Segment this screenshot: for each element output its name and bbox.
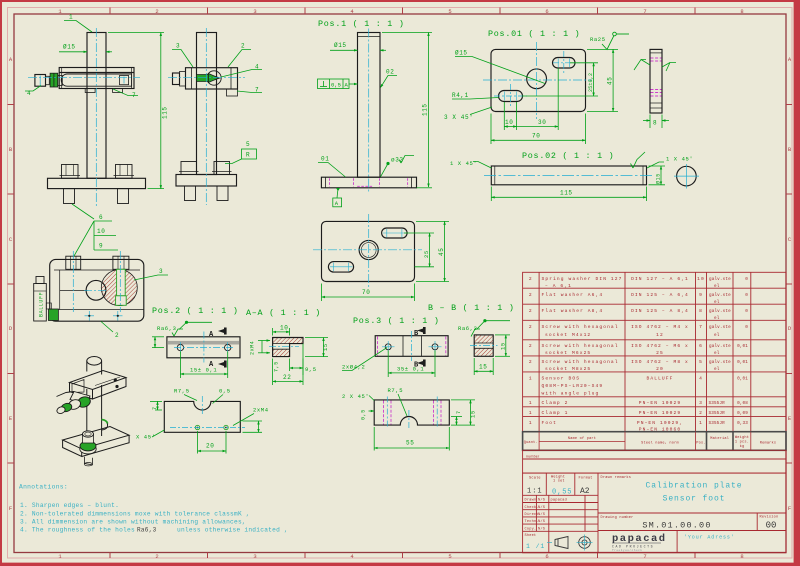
iso sensor chain: [56, 392, 92, 415]
svg-text:Screw with hexagonal: Screw with hexagonal: [542, 343, 619, 349]
svg-text:Sensor BOS: Sensor BOS: [542, 376, 581, 382]
svg-text:Name of part: Name of part: [568, 436, 596, 441]
clamp nut bottom right: [227, 89, 238, 96]
pos3 side dim 15 right: [495, 335, 510, 356]
svg-text:F: F: [9, 505, 12, 512]
svg-text:2: 2: [241, 43, 245, 50]
svg-text:Ra6,3: Ra6,3: [157, 325, 177, 332]
svg-text:2: 2: [529, 308, 533, 314]
BB dim 45: [416, 221, 449, 281]
svg-text:DIN 127 – A 6,1: DIN 127 – A 6,1: [631, 276, 689, 282]
svg-text:BALLUFF: BALLUFF: [647, 376, 674, 382]
svg-text:Ø15: Ø15: [455, 50, 468, 57]
sensor green parts side: [197, 74, 220, 83]
svg-text:Calibration plate: Calibration plate: [646, 482, 743, 491]
svg-text:2: 2: [529, 276, 533, 282]
ruler zone ticks bottom: [110, 553, 695, 559]
svg-text:S355JR: S355JR: [709, 401, 726, 406]
projection symbols: [555, 537, 590, 549]
svg-text:15: 15: [470, 410, 477, 418]
svg-text:2: 2: [529, 324, 533, 330]
svg-text:8: 8: [653, 120, 657, 127]
svg-text:Drawing number: Drawing number: [601, 515, 634, 520]
pos2top dim 7,5 left: [152, 337, 164, 348]
front view centerlines: [28, 28, 140, 207]
svg-text:galv.ste: galv.ste: [709, 309, 731, 314]
studs below: [185, 186, 196, 201]
svg-text:galv.ste: galv.ste: [709, 325, 731, 330]
svg-text:1: 1: [699, 420, 703, 426]
svg-text:PN–EN 10029: PN–EN 10029: [639, 410, 681, 416]
svg-text:0: 0: [745, 277, 748, 282]
svg-text:8: 8: [740, 553, 743, 560]
svg-text:Ra6,3: Ra6,3: [137, 526, 157, 533]
svg-text:115: 115: [560, 190, 573, 197]
svg-text:8: 8: [699, 308, 703, 314]
pos2top dim 15±0,1: [180, 352, 227, 379]
pos02 dim 115: [491, 187, 646, 202]
svg-text:socket M4x12: socket M4x12: [545, 332, 591, 338]
dots on top face: [114, 379, 116, 381]
svg-text:35± 0,1: 35± 0,1: [397, 366, 424, 373]
base feet: [84, 457, 92, 465]
svg-text:ISO 4762 – M8 x: ISO 4762 – M8 x: [631, 359, 689, 365]
svg-text:Steel name, norm: Steel name, norm: [641, 441, 679, 446]
check mark pos02: [633, 152, 645, 168]
slot top-right BB: [382, 228, 408, 238]
pos01 centerlines: [483, 42, 592, 119]
svg-text:Sheet: Sheet: [525, 533, 537, 538]
sensor green parts front: [50, 73, 58, 87]
svg-text:Copy.: Copy.: [525, 527, 537, 531]
svg-text:55: 55: [406, 440, 414, 447]
dim 20: [198, 431, 227, 454]
svg-text:10: 10: [505, 119, 513, 126]
gray slot band: [168, 341, 239, 345]
svg-text:Annotations:: Annotations:: [19, 484, 68, 491]
sensor body left: [35, 75, 46, 87]
svg-text:10: 10: [697, 276, 705, 282]
svg-text:Screw with hexagonal: Screw with hexagonal: [542, 324, 619, 330]
svg-text:0: 0: [745, 325, 748, 330]
svg-text:20: 20: [656, 366, 664, 372]
plate outline: [322, 221, 415, 281]
svg-text:PN–EN 10029: PN–EN 10029: [639, 400, 681, 406]
column: [358, 33, 381, 178]
flange hidden holes magenta: [330, 178, 408, 187]
svg-text:– A 6,1: – A 6,1: [545, 283, 572, 289]
svg-text:20: 20: [206, 443, 214, 450]
base flange: [321, 177, 416, 188]
svg-text:Flat washer A6,4: Flat washer A6,4: [542, 292, 604, 298]
svg-text:2 X 45': 2 X 45': [342, 393, 369, 400]
svg-text:BALLUFF: BALLUFF: [39, 292, 45, 317]
datum A flag: [336, 188, 340, 191]
column cylinder: [87, 357, 102, 366]
svg-text:15: 15: [322, 343, 329, 351]
svg-text:A2: A2: [580, 487, 590, 496]
clamp slot detail: [72, 380, 84, 393]
pos1 dim 115: [382, 33, 432, 188]
svg-text:4: 4: [699, 376, 703, 382]
pos01 dim 25±0,2: [522, 63, 598, 96]
svg-text:Ø15: Ø15: [334, 42, 347, 49]
svg-text:unless otherwise indicated ,: unless otherwise indicated ,: [177, 526, 288, 533]
svg-text:70: 70: [532, 133, 540, 140]
svg-text:15: 15: [500, 342, 507, 350]
svg-text:Foot: Foot: [542, 420, 557, 426]
svg-text:Pos.2 ( 1 : 1 ): Pos.2 ( 1 : 1 ): [152, 306, 239, 316]
dim Ø15 front: [59, 51, 112, 53]
pos2top centerlines: [174, 332, 235, 363]
svg-text:115: 115: [422, 103, 429, 116]
dim 115 front: [108, 33, 164, 189]
pos1 centerline: [368, 29, 370, 194]
svg-text:N/S: N/S: [538, 519, 545, 524]
pos02 end circle: [677, 166, 697, 186]
pos01 side dim 8: [643, 115, 669, 129]
clamp block top face: [70, 371, 127, 390]
small holes: [195, 425, 199, 429]
svg-text:1: 1: [529, 420, 533, 426]
svg-text:free4you/check: free4you/check: [612, 548, 643, 552]
base plate front: [48, 178, 146, 188]
svg-text:7,5: 7,5: [274, 361, 280, 372]
svg-text:15± 0,1: 15± 0,1: [190, 367, 217, 374]
center hole: [527, 69, 547, 89]
svg-text:1: 1: [529, 376, 533, 382]
svg-text:25: 25: [656, 350, 664, 356]
svg-text:3: 3: [253, 8, 256, 15]
svg-text:Pos.02 ( 1 : 1 ): Pos.02 ( 1 : 1 ): [522, 151, 614, 161]
dims right: [451, 400, 475, 425]
svg-text:Ø15: Ø15: [63, 44, 76, 51]
side view centerlines: [168, 28, 245, 205]
svg-text:Drawn: Drawn: [525, 498, 537, 503]
hatched boss: [101, 270, 137, 306]
svg-text:1 /1: 1 /1: [526, 543, 545, 550]
svg-text:7: 7: [643, 553, 646, 560]
svg-text:0: 0: [745, 293, 748, 298]
svg-text:8: 8: [740, 8, 743, 15]
svg-text:1 pcs.: 1 pcs.: [735, 441, 749, 445]
svg-text:1 X 45': 1 X 45': [666, 156, 693, 163]
svg-text:0,5: 0,5: [331, 82, 341, 89]
svg-text:Format: Format: [579, 476, 593, 481]
svg-text:Pos.: Pos.: [696, 442, 705, 446]
svg-text:SM.01.00.00: SM.01.00.00: [642, 521, 711, 531]
left bolt head: [66, 256, 81, 269]
svg-text:'Your Adress': 'Your Adress': [684, 535, 735, 541]
svg-text:6: 6: [699, 343, 703, 349]
svg-text:DIN 125 – A 8,4: DIN 125 – A 8,4: [631, 308, 689, 314]
svg-text:5: 5: [699, 359, 703, 365]
svg-text:Ø15: Ø15: [655, 173, 662, 184]
svg-text:2: 2: [155, 8, 158, 15]
studs below base: [64, 189, 75, 204]
svg-text:galv.ste: galv.ste: [709, 293, 731, 298]
svg-text:el: el: [714, 284, 720, 289]
svg-text:Scale: Scale: [529, 476, 541, 481]
slot top-right: [553, 58, 576, 69]
dim 55: [374, 427, 449, 451]
svg-text:0,01: 0,01: [737, 360, 748, 365]
svg-text:2. Non-tolerated dimmensions m: 2. Non-tolerated dimmensions moxe with t…: [20, 510, 250, 517]
svg-text:30: 30: [538, 119, 546, 126]
svg-text:1: 1: [529, 400, 533, 406]
svg-text:el: el: [714, 300, 720, 305]
pos3 side dim 15 bottom: [474, 358, 493, 375]
base plate sides: [63, 440, 82, 457]
svg-text:6: 6: [99, 214, 103, 221]
svg-text:115: 115: [162, 106, 169, 119]
ruler zone ticks left/right: [8, 105, 793, 464]
svg-text:R4,1: R4,1: [452, 92, 469, 99]
svg-text:F: F: [788, 505, 791, 512]
bolt left: [62, 165, 79, 179]
svg-text:1 set: 1 set: [553, 480, 565, 484]
clamp body front: [59, 68, 134, 89]
svg-text:4. The roughness of the holes: 4. The roughness of the holes: [20, 526, 135, 533]
svg-text:R: R: [246, 152, 250, 159]
svg-text:7: 7: [152, 406, 158, 410]
roughness check pos1: [401, 156, 414, 164]
svg-text:Clamp 2: Clamp 2: [542, 400, 569, 406]
svg-text:N/S: N/S: [538, 505, 545, 510]
svg-text:PN–EN 10060: PN–EN 10060: [639, 427, 681, 433]
pos02 dim Ø15 right: [649, 166, 666, 185]
BB centerlines: [313, 214, 422, 289]
svg-text:0,01: 0,01: [737, 377, 748, 382]
svg-text:2: 2: [115, 332, 119, 339]
base plate top face: [63, 427, 130, 449]
svg-text:7: 7: [456, 410, 462, 414]
pos1 dim Ø15: [330, 49, 386, 51]
svg-text:6: 6: [545, 553, 548, 560]
svg-text:3: 3: [699, 400, 703, 406]
section B-B marks: [414, 327, 426, 370]
svg-text:S355JR: S355JR: [709, 411, 726, 416]
row lines: [523, 287, 786, 289]
svg-text:3 X 45': 3 X 45': [444, 114, 473, 121]
svg-text:A: A: [335, 200, 339, 207]
svg-text:socket M8x25: socket M8x25: [545, 366, 591, 372]
svg-text:Remarks: Remarks: [760, 441, 777, 446]
slot bottom-left: [499, 91, 523, 102]
svg-text:socket M6x25: socket M6x25: [545, 350, 591, 356]
svg-text:Material: Material: [710, 436, 729, 441]
number row: [523, 450, 786, 473]
svg-text:el: el: [714, 351, 720, 356]
svg-text:Revision: Revision: [760, 515, 779, 520]
svg-text:Sensor foot: Sensor foot: [663, 495, 726, 504]
svg-text:kg: kg: [740, 444, 745, 449]
svg-text:R7,5: R7,5: [388, 387, 404, 394]
svg-text:galv.ste: galv.ste: [709, 360, 731, 365]
side plate roughness checks: [634, 60, 646, 71]
svg-text:with angle plug: with angle plug: [542, 391, 600, 397]
svg-text:0,33: 0,33: [737, 421, 748, 426]
svg-text:6: 6: [545, 8, 548, 15]
svg-text:9: 9: [699, 292, 703, 298]
leader 6 below front view: [72, 204, 94, 219]
svg-text:9: 9: [99, 243, 103, 250]
svg-text:2: 2: [699, 410, 703, 416]
pos01 dim 70: [491, 114, 586, 145]
shaft centerline: [484, 174, 654, 176]
dim 4 right: [243, 421, 263, 432]
dim 7 left: [150, 401, 162, 410]
right bolt head: [113, 256, 129, 269]
svg-text:Ra25: Ra25: [590, 36, 606, 43]
center hole BB: [359, 240, 378, 259]
svg-text:45: 45: [607, 77, 614, 85]
svg-text:2: 2: [529, 343, 533, 349]
svg-text:Flat washer A8,4: Flat washer A8,4: [542, 308, 604, 314]
svg-text:el: el: [714, 333, 720, 338]
svg-text:2xM4: 2xM4: [253, 407, 269, 414]
BB dim 70: [322, 284, 415, 302]
svg-text:5: 5: [246, 141, 250, 148]
svg-text:45: 45: [438, 248, 445, 256]
assembly centerlines: [73, 251, 120, 312]
svg-text:0,09: 0,09: [737, 411, 748, 416]
column side: [197, 33, 217, 175]
svg-text:Drawn remarks: Drawn remarks: [601, 475, 632, 480]
svg-text:CAD PROJECTS: CAD PROJECTS: [612, 545, 654, 549]
svg-text:0,55: 0,55: [552, 489, 572, 497]
svg-text:Pos.3 ( 1 : 1 ): Pos.3 ( 1 : 1 ): [353, 316, 440, 326]
svg-text:galv.ste: galv.ste: [709, 344, 731, 349]
svg-text:2xM4: 2xM4: [250, 341, 256, 355]
svg-text:1. Sharpen edges – blunt.: 1. Sharpen edges – blunt.: [20, 502, 119, 509]
clamp body side: [186, 68, 238, 89]
svg-text:10: 10: [97, 228, 105, 235]
svg-text:2: 2: [529, 359, 533, 365]
svg-text:70: 70: [362, 289, 370, 296]
BB dim 25: [404, 233, 434, 267]
svg-text:ISO 4762 – M6 x: ISO 4762 – M6 x: [631, 343, 689, 349]
svg-text:25: 25: [423, 250, 430, 258]
iso knob green arc: [102, 420, 108, 424]
svg-text:0,5: 0,5: [361, 409, 367, 420]
svg-text:B – B ( 1 : 1 ): B – B ( 1 : 1 ): [428, 303, 515, 313]
svg-text:0,01: 0,01: [737, 344, 748, 349]
svg-text:number: number: [526, 455, 540, 459]
svg-text:2: 2: [529, 292, 533, 298]
svg-text:N/S: N/S: [538, 498, 545, 503]
svg-text:Q08M–PS–LR20–S49: Q08M–PS–LR20–S49: [542, 383, 604, 389]
base plate side: [176, 175, 237, 187]
svg-text:Quant.: Quant.: [524, 441, 538, 445]
sensor nut green: [49, 309, 59, 321]
A-A dims: [258, 328, 328, 385]
svg-text:3: 3: [176, 43, 180, 50]
plate outline: [491, 49, 586, 111]
svg-text:1 X 45': 1 X 45': [450, 160, 477, 167]
bolt right: [116, 165, 133, 179]
svg-text:S355JR: S355JR: [709, 421, 726, 426]
svg-text:1: 1: [529, 410, 533, 416]
svg-text:00: 00: [766, 521, 777, 531]
BOM table grid: [523, 272, 786, 431]
svg-text:Ra6,3: Ra6,3: [458, 325, 478, 332]
column lines: [538, 272, 540, 431]
svg-text:0: 0: [745, 309, 748, 314]
holes: [177, 344, 183, 350]
clamp body outline: [50, 259, 144, 321]
pos3 dim 35±0,1: [388, 351, 435, 378]
svg-text:22: 22: [283, 374, 291, 381]
knob on column: [102, 420, 108, 431]
sensor body left side: [173, 73, 180, 85]
svg-text:9,5: 9,5: [305, 366, 317, 373]
BOM text: [529, 276, 748, 433]
pos1 perpendicularity frame: [318, 79, 358, 89]
BOM header labels: [524, 435, 777, 449]
bolts side: [181, 162, 197, 175]
svg-text:Pos.01 ( 1 : 1 ): Pos.01 ( 1 : 1 ): [488, 29, 580, 39]
svg-text:0,08: 0,08: [737, 401, 748, 406]
svg-text:el: el: [714, 316, 720, 321]
svg-text:12: 12: [656, 332, 664, 338]
svg-text:7: 7: [643, 8, 646, 15]
svg-text:0,5: 0,5: [219, 388, 231, 395]
svg-text:1: 1: [69, 14, 73, 21]
right part: [598, 512, 786, 514]
svg-text:Weight: Weight: [735, 435, 749, 440]
svg-text:3: 3: [159, 268, 163, 275]
svg-text:10: 10: [280, 325, 288, 332]
svg-text:1:1: 1:1: [527, 488, 543, 496]
svg-text:02: 02: [386, 69, 394, 76]
bottom cross marks: [85, 311, 123, 321]
svg-text:N/S: N/S: [538, 512, 545, 517]
svg-text:7: 7: [699, 324, 703, 330]
svg-text:5: 5: [448, 553, 451, 560]
svg-text:5: 5: [448, 8, 451, 15]
svg-text:A–A ( 1 : 1 ): A–A ( 1 : 1 ): [246, 308, 321, 318]
svg-text:DIN 125 – A 6,4: DIN 125 – A 6,4: [631, 292, 689, 298]
ruler zone ticks top: [110, 8, 695, 15]
svg-text:01: 01: [321, 156, 329, 163]
small rows: [523, 502, 598, 504]
svg-text:Techn.: Techn.: [525, 519, 539, 524]
svg-text:3: 3: [253, 553, 256, 560]
svg-text:el: el: [714, 367, 720, 372]
svg-text:Spring washer DIN 127: Spring washer DIN 127: [542, 276, 623, 282]
svg-text:ISO 4762 – M4 x: ISO 4762 – M4 x: [631, 324, 689, 330]
svg-text:Check.: Check.: [525, 505, 539, 510]
svg-text:PN–EN 10029,: PN–EN 10029,: [637, 420, 683, 426]
BOM header row (thick dark border): [523, 432, 786, 451]
pos01 dim 45: [587, 49, 618, 111]
svg-text:R7,5: R7,5: [174, 388, 190, 395]
clamp small tabs bottom: [85, 89, 95, 93]
sensor cone in clamp: [207, 71, 221, 85]
svg-text:Clamp 1: Clamp 1: [542, 410, 569, 416]
svg-text:3. All dimmension are shown wi: 3. All dimmension are shown without mach…: [20, 518, 246, 525]
big hole: [86, 280, 106, 300]
svg-text:2: 2: [155, 553, 158, 560]
title block labels: [525, 475, 779, 539]
svg-text:Screw with hexagonal: Screw with hexagonal: [542, 359, 619, 365]
svg-text:25±0,2: 25±0,2: [588, 73, 594, 92]
clamp block sides: [70, 383, 93, 400]
sensor left outside: [34, 277, 47, 322]
title block frame: [523, 473, 786, 553]
right bolt shaft green: [116, 269, 127, 305]
